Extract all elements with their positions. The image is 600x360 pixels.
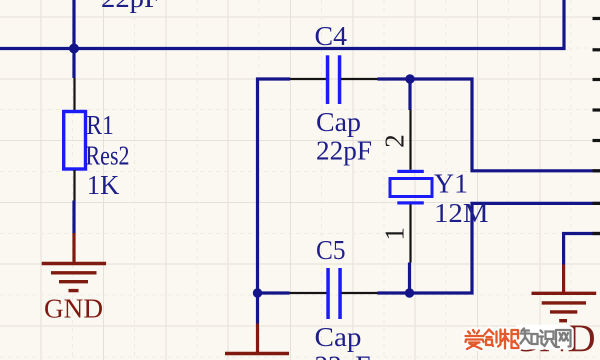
capacitor C5 plates: [326, 268, 342, 319]
crystal Y1 pin 2: [409, 110, 411, 170]
wire vertical drop to R1: [72, 0, 75, 78]
svg-text:1: 1: [380, 227, 410, 241]
wire stub crystal pin1 to junction: [408, 263, 411, 294]
wire C5 to junction: [378, 291, 410, 294]
resistor R1 pin bottom: [73, 170, 75, 201]
wire junction down to bottom ground: [256, 293, 259, 324]
crystal Y1 top plate: [397, 170, 424, 173]
svg-text:GND: GND: [44, 294, 103, 324]
node junction C4/Y1 top: [405, 74, 414, 83]
node junction C5 left: [253, 288, 262, 297]
wire R1 to GND port: [72, 201, 75, 234]
svg-text:Cap: Cap: [316, 107, 361, 137]
capacitor C4 pin 2: [341, 78, 378, 80]
watermark char 知: [521, 329, 538, 345]
wire right edge to right ground: [564, 234, 600, 265]
capacitor C5 pin 1: [290, 292, 327, 294]
ground GND left stem: [72, 233, 75, 263]
ground bottom stem: [256, 324, 259, 353]
svg-text:22pF: 22pF: [316, 136, 372, 166]
node junction C5/Y1 bottom: [405, 288, 414, 297]
svg-text:R1: R1: [86, 110, 114, 140]
capacitor C5 pin 2: [342, 292, 378, 294]
watermark char 创: [485, 330, 501, 347]
svg-text:C5: C5: [316, 235, 346, 265]
watermark char 识: [540, 331, 555, 347]
svg-text:1K: 1K: [87, 170, 120, 200]
wire lower right run: [410, 203, 600, 293]
wire C5 left: [258, 291, 290, 294]
svg-text:12M: 12M: [434, 198, 489, 228]
watermark: [466, 325, 572, 350]
crystal Y1 pin 1: [409, 205, 411, 263]
ground right bars: [532, 293, 597, 320]
wire junction right and down to pin row: [410, 79, 600, 171]
ground bottom bar: [225, 352, 289, 355]
ground GND left bars: [42, 264, 106, 291]
svg-text:22pF: 22pF: [101, 0, 160, 13]
wire C4 to junction: [378, 77, 411, 80]
ground right stem: [562, 265, 565, 293]
wire top horizontal bus with right bend up: [0, 0, 564, 49]
svg-text:22pF: 22pF: [315, 351, 371, 360]
pin stubs of off-sheet part at right edge: [593, 19, 600, 234]
resistor R1 pin top: [73, 78, 75, 110]
svg-text:Res2: Res2: [86, 141, 130, 171]
watermark char 网: [556, 330, 571, 347]
svg-text:Y1: Y1: [434, 169, 468, 199]
capacitor C4 plates: [326, 55, 342, 104]
watermark white backdrop: [515, 325, 572, 350]
crystal Y1 body: [390, 179, 432, 197]
node junction at top bus: [69, 44, 79, 54]
watermark halo: [466, 329, 571, 350]
capacitor C4 pin 1: [290, 78, 327, 80]
watermark char 根: [502, 330, 519, 349]
svg-text:C4: C4: [315, 21, 348, 51]
resistor R1 body: [64, 112, 86, 170]
svg-text:2: 2: [380, 134, 410, 148]
wire stub junction to crystal pin 2: [408, 79, 411, 110]
wire left branch down from C4 line: [258, 79, 291, 293]
svg-text:Cap: Cap: [315, 322, 362, 352]
crystal Y1 bottom plate: [397, 201, 424, 204]
watermark char 爱: [466, 330, 484, 349]
